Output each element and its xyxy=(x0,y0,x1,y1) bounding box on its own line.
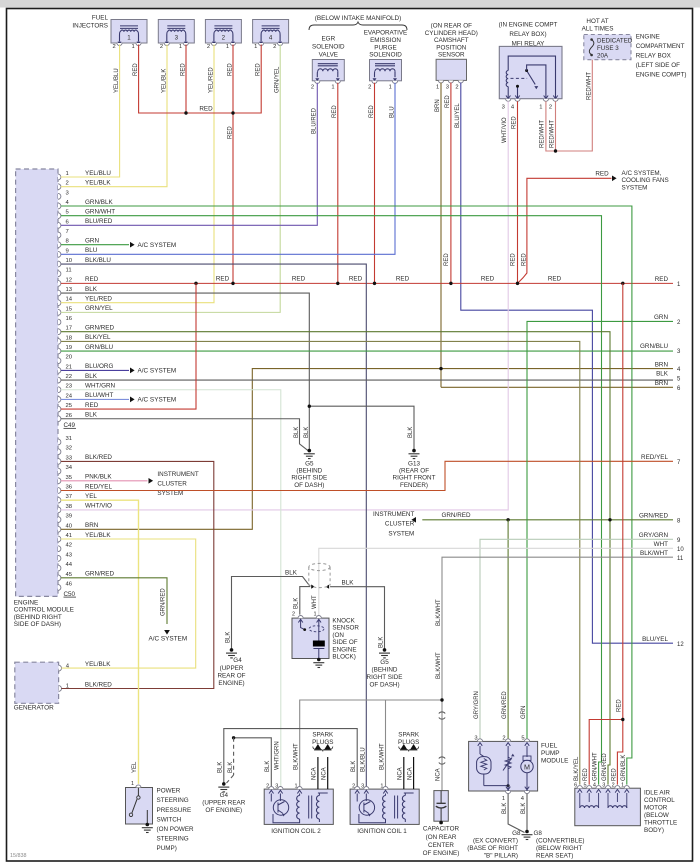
label evaporative emission purge solenoid xyxy=(364,30,408,59)
svg-text:1: 1 xyxy=(436,85,439,91)
label AC system cooling fans xyxy=(622,170,669,192)
svg-text:CLUSTER: CLUSTER xyxy=(385,521,415,528)
svg-text:OF ENGINE): OF ENGINE) xyxy=(205,807,242,814)
camshaft sensor pin numbers and labels xyxy=(435,85,461,129)
svg-text:3: 3 xyxy=(175,35,179,42)
svg-text:23: 23 xyxy=(66,384,73,390)
wire BRN ECM pin40 handled above xyxy=(0,0,1,1)
svg-text:SWITCH: SWITCH xyxy=(157,816,182,823)
svg-text:RED: RED xyxy=(133,63,139,76)
svg-text:CONTROL: CONTROL xyxy=(644,797,675,804)
svg-text:RED: RED xyxy=(522,253,528,266)
svg-text:PLUGS: PLUGS xyxy=(312,739,333,746)
wire RED EGR pin1 to red bus xyxy=(337,83,339,284)
junction dots on main red bus xyxy=(194,282,624,285)
svg-text:RED/WHT: RED/WHT xyxy=(549,120,555,148)
wire BLU/ORG ECM pin21 to AC system xyxy=(61,368,135,374)
wire BLK knock shield to ground G5 xyxy=(330,587,384,650)
svg-text:BLK: BLK xyxy=(521,803,527,814)
svg-text:RED: RED xyxy=(655,276,669,283)
wire BRN camshaft pin1 branch xyxy=(440,83,442,388)
wire GRN/WHT ECM pin5 to idle air pin4 xyxy=(61,216,602,785)
idle air control motor xyxy=(575,786,641,826)
svg-text:BLK/WHT: BLK/WHT xyxy=(293,743,299,770)
knock shield dashed cylinder xyxy=(309,563,330,587)
svg-text:MODULE: MODULE xyxy=(541,758,568,765)
svg-text:(ON: (ON xyxy=(332,632,344,639)
fuel injector 1 xyxy=(111,20,147,46)
wire BLK knock pin2 shield and G4 xyxy=(232,577,311,650)
svg-text:YEL/RED: YEL/RED xyxy=(208,67,214,93)
wire BLK/YEL ECM pin18 to idle air pin6 xyxy=(61,341,580,784)
svg-text:YEL/BLK: YEL/BLK xyxy=(85,179,111,186)
svg-text:INSTRUMENT: INSTRUMENT xyxy=(157,471,198,478)
fuse text xyxy=(597,37,633,59)
svg-text:BLOCK): BLOCK) xyxy=(332,654,355,661)
svg-text:39: 39 xyxy=(66,514,73,520)
svg-text:RED: RED xyxy=(227,63,233,76)
EGR pin numbers and labels xyxy=(311,85,338,135)
ignition coil 2 pin numbers xyxy=(266,783,297,789)
svg-text:31: 31 xyxy=(66,436,73,442)
svg-text:"B" PILLAR): "B" PILLAR) xyxy=(484,852,518,859)
wire BLK ECM pin22 to right edge 5 xyxy=(61,379,673,381)
svg-text:GRN/BLU: GRN/BLU xyxy=(85,344,113,351)
svg-text:PUMP: PUMP xyxy=(541,750,559,757)
wire BLK ECM pin26 to ground G5 xyxy=(61,419,308,451)
svg-text:BLK/YEL: BLK/YEL xyxy=(574,756,580,781)
MFI relay xyxy=(499,46,562,101)
label GRN/RED pin45 xyxy=(161,588,167,616)
svg-text:RED: RED xyxy=(481,276,495,283)
svg-text:YEL: YEL xyxy=(85,493,97,500)
svg-text:9: 9 xyxy=(66,248,69,254)
wire RED/YEL ECM pin36 to right edge 7 xyxy=(61,461,673,490)
svg-text:15: 15 xyxy=(66,306,73,312)
svg-text:CYLINDER HEAD): CYLINDER HEAD) xyxy=(425,30,478,37)
svg-text:ALL TIMES: ALL TIMES xyxy=(582,26,614,33)
svg-text:(UPPER: (UPPER xyxy=(220,665,244,672)
svg-text:BLU/YEL: BLU/YEL xyxy=(642,636,668,643)
svg-text:2: 2 xyxy=(160,44,163,50)
svg-text:RELAY BOX: RELAY BOX xyxy=(636,53,672,60)
svg-text:BLK: BLK xyxy=(351,761,357,772)
ground G4 knock xyxy=(226,648,237,658)
spark plugs coil 2 xyxy=(312,732,334,790)
svg-text:BLK: BLK xyxy=(85,373,98,380)
generator box xyxy=(15,662,59,703)
svg-text:2: 2 xyxy=(292,612,295,618)
wire RED injector supply bus xyxy=(139,45,262,284)
svg-text:WHT/GRN: WHT/GRN xyxy=(274,741,280,770)
svg-text:RED: RED xyxy=(180,63,186,76)
svg-text:GRN/WHT: GRN/WHT xyxy=(593,752,599,781)
label AC system pin24 xyxy=(138,397,177,404)
arrow to AC cooling fans xyxy=(612,175,617,181)
svg-text:NCA: NCA xyxy=(435,768,441,781)
svg-text:42: 42 xyxy=(66,543,73,549)
svg-text:CONTROL MODULE: CONTROL MODULE xyxy=(14,607,74,614)
wire RED bus branch to idle air pins5,2 xyxy=(589,283,623,784)
svg-text:BLK: BLK xyxy=(294,427,300,438)
fuel pump module xyxy=(469,739,538,794)
svg-text:BLU/RED: BLU/RED xyxy=(85,218,113,225)
svg-text:(BEHIND RIGHT: (BEHIND RIGHT xyxy=(14,614,62,621)
wire YEL/BLK ECM pin2 to injector3 pin2 xyxy=(61,45,167,187)
svg-text:24: 24 xyxy=(66,393,73,399)
svg-text:1: 1 xyxy=(179,44,182,50)
svg-text:POWER: POWER xyxy=(157,788,181,795)
svg-text:RED: RED xyxy=(332,105,338,118)
svg-text:RED: RED xyxy=(611,768,617,781)
junction dot RED/WHT xyxy=(554,149,557,152)
label below intake manifold xyxy=(315,15,402,22)
diagram id text xyxy=(10,853,27,859)
svg-text:HOT AT: HOT AT xyxy=(586,18,608,25)
svg-text:NCA: NCA xyxy=(407,767,413,780)
wire RED camshaft pin3 to red bus xyxy=(450,83,452,284)
label G5 lower xyxy=(367,659,403,689)
wire YEL/BLU ECM pin1 to injector1 pin2 xyxy=(61,45,120,178)
svg-text:BLU/WHT: BLU/WHT xyxy=(85,392,113,399)
dedicated fuse 3 20A symbol xyxy=(589,38,594,56)
right edge wire numbers xyxy=(639,276,685,648)
svg-text:26: 26 xyxy=(66,413,73,419)
break symbol on riser xyxy=(439,712,445,719)
svg-text:PUMP): PUMP) xyxy=(157,845,177,852)
svg-text:RED: RED xyxy=(85,276,99,283)
svg-text:RELAY BOX): RELAY BOX) xyxy=(509,31,546,38)
svg-text:(IN ENGINE COMPT: (IN ENGINE COMPT xyxy=(499,22,558,29)
engine control module box xyxy=(16,169,58,596)
svg-text:46: 46 xyxy=(66,582,73,588)
svg-text:BLK: BLK xyxy=(285,569,298,576)
svg-text:G8: G8 xyxy=(534,830,543,837)
svg-text:SENSOR: SENSOR xyxy=(332,625,359,632)
svg-text:ENGINE COMPT): ENGINE COMPT) xyxy=(636,71,687,78)
svg-text:CAPACITOR: CAPACITOR xyxy=(423,826,460,833)
svg-text:1: 1 xyxy=(127,35,131,42)
svg-text:2: 2 xyxy=(352,783,355,789)
junction dot BLK/WHT xyxy=(440,698,443,701)
svg-text:GRY/GRN: GRY/GRN xyxy=(474,691,480,719)
labels idle air wires xyxy=(574,752,627,781)
svg-text:FUEL: FUEL xyxy=(541,743,558,750)
svg-text:4: 4 xyxy=(593,782,596,788)
svg-text:RED: RED xyxy=(548,276,562,283)
svg-text:WHT/VIO: WHT/VIO xyxy=(85,503,112,510)
label BLK knock left xyxy=(225,569,299,643)
svg-text:ENGINE: ENGINE xyxy=(14,599,39,606)
svg-text:BLK: BLK xyxy=(217,762,223,773)
svg-text:7: 7 xyxy=(66,229,69,235)
svg-text:BLK/WHT: BLK/WHT xyxy=(640,550,668,557)
svg-text:BLK/WHT: BLK/WHT xyxy=(379,743,385,770)
svg-text:A/C SYSTEM: A/C SYSTEM xyxy=(148,635,187,642)
svg-text:(ON REAR OF: (ON REAR OF xyxy=(431,23,472,30)
svg-text:GRN/RED: GRN/RED xyxy=(85,571,114,578)
svg-text:BLK: BLK xyxy=(85,286,98,293)
svg-text:GENERATOR: GENERATOR xyxy=(14,705,54,712)
svg-text:YEL/BLK: YEL/BLK xyxy=(161,69,167,93)
wire BLU/YEL camshaft pin2 to right edge 12 xyxy=(461,83,673,644)
svg-text:SENSOR: SENSOR xyxy=(438,52,465,59)
svg-text:WHT: WHT xyxy=(312,595,318,609)
svg-text:FUSE 3: FUSE 3 xyxy=(597,45,619,52)
svg-text:20: 20 xyxy=(66,355,73,361)
svg-text:PURGE: PURGE xyxy=(374,44,396,51)
wire BLK fuel pump pin1 to G8 xyxy=(508,794,524,833)
wire YEL label pin1 xyxy=(131,781,134,787)
label G5 xyxy=(291,461,327,489)
svg-text:35: 35 xyxy=(66,475,73,481)
svg-text:1: 1 xyxy=(389,85,392,91)
ignition coil 1 xyxy=(350,786,419,824)
wire RED/WHT relay pins 1,2 to fuse xyxy=(546,60,592,151)
svg-text:2: 2 xyxy=(455,85,458,91)
svg-text:ENGINE: ENGINE xyxy=(636,34,660,41)
svg-text:11: 11 xyxy=(677,556,684,562)
ground G4 coils xyxy=(218,782,229,792)
svg-text:GRN: GRN xyxy=(654,314,668,321)
svg-text:BLK/WHT: BLK/WHT xyxy=(436,652,442,679)
evaporative emission purge solenoid xyxy=(370,60,402,84)
svg-text:RED: RED xyxy=(396,276,410,283)
svg-text:GRN/BLK: GRN/BLK xyxy=(85,199,113,206)
svg-text:1: 1 xyxy=(254,44,257,50)
idle air pin numbers xyxy=(574,782,624,788)
svg-text:3: 3 xyxy=(361,783,364,789)
wire WHT/GRN ECM pin23 to ignition coil2 pin3 xyxy=(61,390,281,786)
svg-text:BLK: BLK xyxy=(228,762,234,773)
svg-text:GRN: GRN xyxy=(85,237,99,244)
wire YEL/RED ECM pin14 to injector2 pin2 xyxy=(61,45,214,303)
labels BLK G4 coils xyxy=(217,762,233,773)
svg-text:18: 18 xyxy=(66,335,73,341)
wire BLK fuel pump pin4 to G8 xyxy=(526,794,528,832)
svg-text:GRN/RED: GRN/RED xyxy=(441,512,470,519)
svg-text:19: 19 xyxy=(66,345,73,351)
svg-text:1: 1 xyxy=(331,85,334,91)
label G13 xyxy=(393,461,436,489)
label RED cooling fans xyxy=(595,171,609,178)
svg-text:YEL/BLU: YEL/BLU xyxy=(114,68,120,93)
label ignition coil 1 xyxy=(357,828,407,835)
svg-text:IGNITION COIL 2: IGNITION COIL 2 xyxy=(271,828,321,835)
wire BLK/BLU ECM pin10 to ignition coil1 pin3 xyxy=(61,264,367,786)
svg-text:BLK: BLK xyxy=(293,598,299,609)
svg-text:RED/YEL: RED/YEL xyxy=(641,454,668,461)
svg-text:37: 37 xyxy=(66,494,73,500)
svg-text:(ON REAR: (ON REAR xyxy=(426,834,457,841)
ground G5 lower xyxy=(379,648,390,658)
svg-text:5: 5 xyxy=(583,782,586,788)
svg-text:(REAR OF: (REAR OF xyxy=(399,468,429,475)
svg-text:G5: G5 xyxy=(380,659,389,666)
svg-text:2: 2 xyxy=(549,104,552,110)
label BLK shield right xyxy=(342,580,385,649)
label ignition coil 2 xyxy=(271,828,321,835)
label AC system pin8 xyxy=(138,242,177,249)
svg-text:OF DASH): OF DASH) xyxy=(294,482,324,489)
svg-text:RED: RED xyxy=(511,253,517,266)
ignition coil 1 pin numbers xyxy=(352,783,383,789)
svg-text:6: 6 xyxy=(574,782,577,788)
svg-text:BLU: BLU xyxy=(85,247,98,254)
wire YEL/BLK ECM pin41 to generator pin4 xyxy=(61,539,196,668)
svg-text:2: 2 xyxy=(612,782,615,788)
svg-text:YEL/BLU: YEL/BLU xyxy=(85,170,111,177)
label fuel pump module xyxy=(541,743,568,765)
svg-text:BRN: BRN xyxy=(435,99,441,112)
wire RED main bus ECM pin12 xyxy=(61,282,673,284)
svg-text:36: 36 xyxy=(66,485,73,491)
ignition coil 2 xyxy=(264,786,333,824)
wire GRN fuel pump pin5 to right edge 2 xyxy=(527,321,673,739)
svg-text:1: 1 xyxy=(66,171,69,177)
label engine control module xyxy=(14,599,74,628)
MFI relay wire labels xyxy=(502,116,555,148)
svg-text:RIGHT FRONT: RIGHT FRONT xyxy=(393,475,436,482)
svg-text:(BEHIND: (BEHIND xyxy=(372,667,398,674)
label capacitor xyxy=(423,826,460,857)
svg-text:BLK/WHT: BLK/WHT xyxy=(436,599,442,626)
svg-text:SOLENOID: SOLENOID xyxy=(369,52,402,59)
svg-text:GRY/GRN: GRY/GRN xyxy=(639,532,669,539)
svg-text:M: M xyxy=(524,762,530,771)
svg-text:17: 17 xyxy=(66,326,73,332)
svg-text:1: 1 xyxy=(131,781,134,787)
svg-text:RED: RED xyxy=(292,276,306,283)
svg-text:BLK/BLU: BLK/BLU xyxy=(360,747,366,772)
wire BLK branch to ground G13 xyxy=(309,406,414,449)
PS switch ground xyxy=(142,823,153,833)
svg-text:FENDER): FENDER) xyxy=(400,482,428,489)
svg-text:1: 1 xyxy=(380,783,383,789)
wire GRN/BLU ECM pin19 to right edge 3 xyxy=(61,350,673,352)
svg-text:1: 1 xyxy=(621,782,624,788)
svg-text:GRN/BLU: GRN/BLU xyxy=(640,343,668,350)
svg-text:(BEHIND: (BEHIND xyxy=(296,468,322,475)
svg-text:A/C SYSTEM: A/C SYSTEM xyxy=(138,397,177,404)
knock sensor xyxy=(292,615,329,658)
svg-text:BLK: BLK xyxy=(342,580,355,587)
svg-text:32: 32 xyxy=(66,446,73,452)
wire WHT knock pin1 to right edge 10 xyxy=(319,548,673,616)
svg-text:1: 1 xyxy=(502,796,505,802)
wire RED relay pin4 to red bus xyxy=(517,101,519,283)
svg-text:G4: G4 xyxy=(220,792,229,799)
svg-text:POSITION: POSITION xyxy=(436,44,467,51)
labels BLK at G5 xyxy=(294,427,310,438)
svg-text:YEL: YEL xyxy=(132,761,138,773)
wire BLK/WHT coil pins1 bus xyxy=(300,700,442,786)
svg-text:SIDE OF DASH): SIDE OF DASH) xyxy=(14,621,61,628)
svg-text:(BELOW: (BELOW xyxy=(644,812,669,819)
svg-text:RED: RED xyxy=(511,116,517,129)
label idle air control motor xyxy=(644,790,677,835)
svg-text:PRESSURE: PRESSURE xyxy=(157,807,192,814)
NCA break to capacitor xyxy=(435,757,445,781)
generator pins xyxy=(59,661,113,692)
svg-text:WHT/VIO: WHT/VIO xyxy=(502,117,508,143)
svg-text:3: 3 xyxy=(602,782,605,788)
svg-text:41: 41 xyxy=(66,533,73,539)
svg-text:1: 1 xyxy=(539,104,542,110)
svg-text:BLK: BLK xyxy=(408,427,414,438)
svg-text:EGR: EGR xyxy=(321,36,335,43)
svg-text:FUEL: FUEL xyxy=(92,15,109,22)
svg-text:BLK: BLK xyxy=(265,761,271,772)
svg-text:A/C SYSTEM,: A/C SYSTEM, xyxy=(622,170,662,177)
svg-text:2: 2 xyxy=(273,44,276,50)
wire GRN/RED cluster branch xyxy=(422,519,673,521)
svg-text:1: 1 xyxy=(226,44,229,50)
svg-text:GRN/BLK: GRN/BLK xyxy=(621,755,627,781)
svg-text:BLK/RED: BLK/RED xyxy=(85,681,112,688)
svg-text:G5: G5 xyxy=(305,461,314,468)
svg-text:BLK/BLU: BLK/BLU xyxy=(85,257,111,264)
svg-text:4: 4 xyxy=(269,35,273,42)
fuel injector 3 xyxy=(158,20,194,46)
svg-text:1: 1 xyxy=(131,44,134,50)
wire GRN/BLK ECM pin4 to idle air pin1 xyxy=(61,206,632,785)
labels RED on main bus xyxy=(216,253,562,283)
wire RED to AC cooling fans xyxy=(518,178,612,283)
svg-text:EVAPORATIVE: EVAPORATIVE xyxy=(364,30,408,37)
wire BLK coil2 pin2 dashed to G4 xyxy=(227,736,272,786)
labels BLK fuel pump xyxy=(502,803,527,814)
svg-text:YEL/RED: YEL/RED xyxy=(85,296,112,303)
svg-text:44: 44 xyxy=(66,562,73,568)
ground G8 xyxy=(522,830,533,840)
injector pin numbers and wire colour labels xyxy=(112,44,280,93)
purge solenoid pin numbers and labels xyxy=(368,85,395,119)
label instrument cluster right xyxy=(373,511,415,537)
ECM connector C49 pins 1-26 xyxy=(58,170,116,429)
svg-text:34: 34 xyxy=(66,465,73,471)
svg-text:40: 40 xyxy=(66,523,73,529)
svg-text:BRN: BRN xyxy=(655,380,669,387)
svg-text:SYSTEM: SYSTEM xyxy=(622,184,648,191)
svg-text:IGNITION COIL 1: IGNITION COIL 1 xyxy=(357,828,407,835)
label hot at all times xyxy=(582,18,614,33)
svg-text:RED/YEL: RED/YEL xyxy=(85,483,112,490)
svg-text:5: 5 xyxy=(521,736,524,742)
svg-text:ENGINE: ENGINE xyxy=(332,646,356,653)
svg-text:REAR OF: REAR OF xyxy=(218,673,246,680)
svg-text:G13: G13 xyxy=(408,461,420,468)
svg-text:A/C SYSTEM: A/C SYSTEM xyxy=(138,368,177,375)
label power steering switch xyxy=(157,788,195,853)
wire YEL ECM pin37 to PS switch xyxy=(61,500,139,784)
svg-text:OF ENGINE): OF ENGINE) xyxy=(423,850,460,857)
wire GRN ECM pin8 to AC system xyxy=(61,242,135,248)
svg-text:PLUGS: PLUGS xyxy=(398,739,419,746)
svg-text:GRN/RED: GRN/RED xyxy=(502,691,508,719)
svg-text:CENTER: CENTER xyxy=(428,842,454,849)
svg-text:COMPARTMENT: COMPARTMENT xyxy=(636,43,685,50)
svg-text:BLK: BLK xyxy=(502,803,508,814)
svg-text:22: 22 xyxy=(66,374,73,380)
svg-text:SPARK: SPARK xyxy=(398,732,420,739)
svg-text:SYSTEM: SYSTEM xyxy=(388,530,414,537)
svg-text:2: 2 xyxy=(368,85,371,91)
svg-text:PNK/BLK: PNK/BLK xyxy=(85,474,112,481)
svg-text:BRN: BRN xyxy=(85,522,99,529)
EGR solenoid valve xyxy=(312,60,344,84)
fuel injector 2 xyxy=(205,20,241,46)
